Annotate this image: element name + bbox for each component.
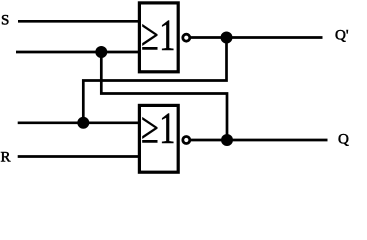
svg-text:S: S — [1, 12, 9, 28]
wire U1 output to Q' — [191, 36, 323, 39]
wire feedback Q' node down-left-down to U2 input 1 — [83, 38, 226, 123]
wire left stub to U2 input 1 — [18, 121, 140, 124]
node Q' junction — [221, 32, 233, 44]
wire R to U2 input 2 — [18, 155, 140, 158]
node Q junction — [221, 134, 233, 146]
NOR gate U1 body — [139, 3, 178, 72]
NOR gate U2 body — [139, 105, 178, 172]
wire S to U1 input 1 — [18, 20, 139, 23]
wire feedback into U1 input 2 — [16, 51, 139, 54]
node junction on U2 input 1 — [77, 117, 89, 129]
wire feedback Q node up-left-up to U1 input 2 — [101, 52, 227, 140]
svg-text:R: R — [1, 150, 11, 166]
inverter bubble U1 output — [183, 34, 190, 41]
node junction on U1 input 2 — [95, 46, 107, 58]
inverter bubble U2 output — [183, 137, 190, 144]
svg-text:≥1: ≥1 — [141, 105, 175, 153]
svg-text:Q': Q' — [335, 28, 349, 44]
wire U2 output to Q — [191, 139, 328, 142]
svg-text:≥1: ≥1 — [141, 12, 175, 60]
svg-text:Q: Q — [338, 132, 349, 148]
